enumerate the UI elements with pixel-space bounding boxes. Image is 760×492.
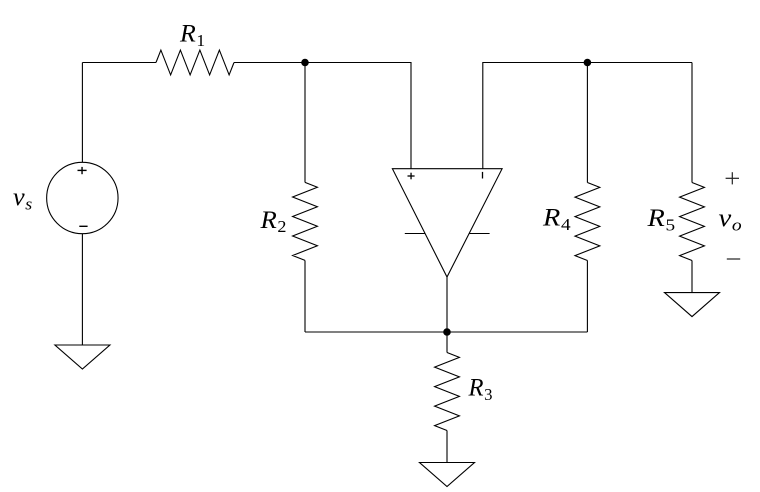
svg-text:R1: R1	[179, 21, 205, 50]
svg-text:R2: R2	[259, 207, 286, 236]
svg-text:R5: R5	[646, 205, 675, 234]
svg-text:vs: vs	[13, 184, 33, 213]
svg-text:R3: R3	[468, 375, 493, 404]
svg-text:R4: R4	[542, 205, 571, 234]
svg-text:vo: vo	[719, 205, 742, 234]
